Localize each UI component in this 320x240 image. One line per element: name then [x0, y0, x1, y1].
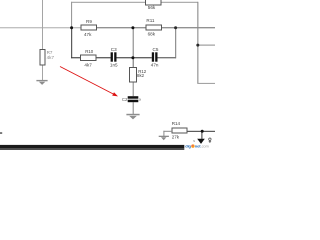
capacitor C2 plates (horizontal)	[128, 96, 139, 102]
wire main horizontal left segment	[0, 27, 81, 28]
tiny edge text fragment left	[0, 132, 2, 134]
svg-text:C5: C5	[153, 47, 159, 52]
wire right vertical x=197.8	[197, 2, 198, 84]
wire row2 R10 to C3	[96, 57, 110, 58]
junction dot (133,57.7)	[131, 56, 134, 59]
wire left vertical x=42 upper	[42, 0, 43, 49]
wire vertical x=71.5 branch	[71, 28, 72, 59]
wire right branch y=83.3	[197, 83, 215, 84]
svg-text:R11: R11	[146, 18, 155, 23]
bottom dark bar soft lower edge	[0, 148, 184, 150]
wire main horizontal right segment	[96, 27, 215, 28]
svg-text:4k7: 4k7	[84, 63, 92, 68]
svg-text:R9: R9	[86, 19, 92, 24]
annotation red arrow head	[112, 92, 118, 96]
svg-text:68k: 68k	[148, 32, 156, 37]
junction dot (197.8,45.1)	[196, 44, 199, 47]
resistor R14 body	[172, 128, 187, 133]
wire left vertical x=42 lower to ground	[42, 65, 43, 80]
junction dot (175.5,27.7)	[174, 26, 177, 29]
svg-text:dig: dig	[185, 144, 191, 149]
bottom dark bar	[0, 145, 184, 148]
wire row2 y=57.7 from corner to R10	[71, 57, 81, 58]
ground below C2	[126, 114, 139, 120]
capacitor C3 plates	[111, 52, 117, 61]
resistor R7 body (vertical)	[40, 49, 45, 65]
resistor R8 body (56k, clipped at top)	[146, 0, 161, 5]
resistor R10 body	[81, 55, 97, 60]
small connector symbol right of triangle	[209, 138, 211, 143]
svg-text:27k: 27k	[172, 134, 180, 139]
svg-text:C3: C3	[111, 47, 117, 52]
junction dot (202.2,131.2)	[201, 130, 204, 133]
wire R14 left drop	[163, 131, 164, 136]
wire vertical x=133 C2 to ground	[133, 102, 134, 114]
junction dot (132.9,27.7)	[131, 26, 134, 29]
svg-text:4k7: 4k7	[47, 55, 55, 60]
svg-text:.com: .com	[201, 145, 209, 149]
svg-text:8k2: 8k2	[137, 73, 145, 78]
junction dot (71.5,27.7)	[70, 26, 73, 29]
svg-text:R14: R14	[172, 121, 181, 126]
wire top loop vertical x=71.6	[71, 2, 72, 28]
svg-text:C2: C2	[122, 97, 128, 102]
wire R14 left lead	[163, 131, 172, 132]
svg-text:s: s	[193, 139, 195, 143]
wire dot to triangle	[201, 131, 202, 139]
diode triangle bottom right	[197, 139, 205, 144]
resistor R12 body (vertical)	[129, 67, 136, 82]
ground below R7	[36, 80, 47, 85]
capacitor C5 plates	[152, 52, 158, 61]
wire row2 C5 to corner	[158, 57, 177, 58]
resistor R9 body	[81, 25, 97, 30]
svg-text:47n: 47n	[151, 63, 159, 68]
wire right branch y=45	[197, 45, 215, 46]
annotation red arrow line	[60, 67, 114, 95]
svg-text:R10: R10	[85, 49, 94, 54]
wire top loop horizontal y=2 right of 56k	[161, 2, 198, 3]
svg-text:56k: 56k	[148, 5, 156, 10]
wire vertical x=175.5 up to main	[175, 28, 176, 59]
wire vertical x=133 row2 to R12	[133, 58, 134, 68]
wire vertical x=133 R12 to C2	[133, 82, 134, 96]
wire top loop horizontal y=2 left of 56k	[71, 2, 146, 3]
wire vertical x=133 between main and row2	[133, 28, 134, 59]
wire R14 right lead	[187, 131, 215, 132]
watermark logo diginet.com	[185, 144, 209, 149]
resistor R11 body	[146, 25, 161, 30]
wire row2 C3 to C5	[117, 57, 152, 58]
svg-text:47k: 47k	[84, 32, 92, 37]
ground at R14 left	[159, 136, 169, 141]
svg-text:1n5: 1n5	[110, 63, 118, 68]
